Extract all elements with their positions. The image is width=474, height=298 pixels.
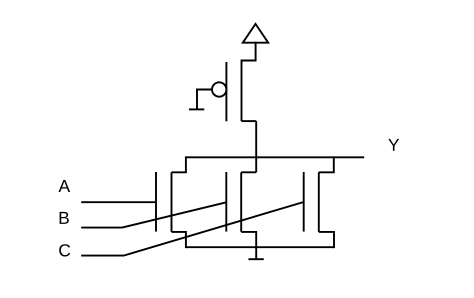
wire input A xyxy=(81,201,156,203)
wire PMOS gate to tie-low xyxy=(197,90,212,110)
wire VDD to PMOS source xyxy=(242,42,256,61)
nmos transistor input A xyxy=(156,156,186,248)
pmos pull-up transistor (gate bubble, gate bar, channel bar) xyxy=(212,60,242,122)
nmos transistor input B xyxy=(226,172,256,247)
VDD supply triangle xyxy=(243,24,268,43)
label B xyxy=(60,212,69,224)
pmos drain lead xyxy=(242,120,257,122)
label C xyxy=(59,244,70,256)
label A xyxy=(59,180,71,192)
wire input C xyxy=(81,202,304,256)
ground symbol xyxy=(248,247,263,259)
label Y xyxy=(388,139,399,151)
wire input B xyxy=(81,202,226,227)
wire PMOS drain down to output node Y xyxy=(255,121,257,172)
bottom ground rail wire xyxy=(186,246,334,248)
nmos transistor input C xyxy=(304,156,334,248)
output rail node Y xyxy=(186,156,364,158)
gate tie-low ground tick xyxy=(189,108,204,110)
